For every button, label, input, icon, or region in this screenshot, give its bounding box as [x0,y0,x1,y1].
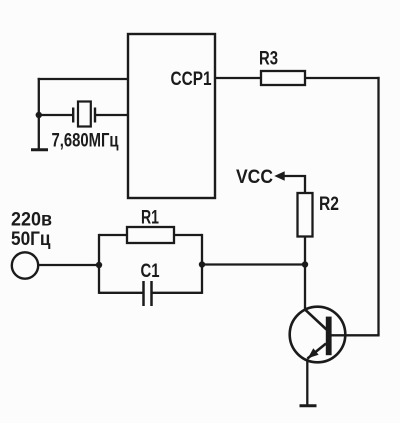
crystal ZQ1 7,680MHz [73,102,95,127]
svg-text:R2: R2 [319,194,339,215]
svg-text:C1: C1 [141,261,160,282]
svg-text:R1: R1 [141,208,159,229]
svg-text:220в: 220в [11,210,52,231]
resistor R1 [127,227,174,243]
wire: junction to crystal left plate [39,114,72,116]
ground (crystal net) [31,148,48,151]
wire: C1 right plate to right branch vertical [153,292,203,294]
wire: left vertical from top loop down to ground [38,78,40,149]
wire: bottom branch to C1 left plate [99,292,143,294]
wire: right branch vertical [201,234,203,294]
node: right RC junction [199,261,205,267]
wire: crystal right plate to IC [96,114,128,116]
capacitor C1 [144,281,152,306]
wire: R2 bottom to collector junction [304,237,306,265]
wire: VCC to R2 top [284,176,306,193]
wire: R3 to right vertical [305,77,380,79]
wire: collector junction down to transistor [304,265,306,311]
wire: IC CCP1 pin to R3 [215,77,261,79]
svg-text:50Гц: 50Гц [11,229,51,250]
transistor VT1 [290,307,346,363]
wire: R1 right to right branch vertical [174,234,202,236]
svg-text:CCP1: CCP1 [171,69,212,90]
wire: left branch vertical [98,234,100,294]
wire: source to RC junction [38,264,99,266]
svg-text:R3: R3 [259,49,278,70]
node: left RC junction [96,262,102,268]
IC U1 [128,34,215,198]
wire: RC network to collector junction [202,263,305,265]
node: crystal-left junction [36,112,42,118]
svg-text:VCC: VCC [236,167,273,188]
wire: to R1 left [99,234,127,236]
resistor R3 [261,71,305,85]
wire: right vertical down to transistor base [377,77,379,335]
arrow: VCC pointer [274,171,284,180]
source G1 220V 50Hz terminal [12,252,38,278]
resistor R2 [298,193,313,237]
wire: emitter down to ground [306,359,308,406]
wire: top loop from crystal net to IC left edge [38,78,128,80]
wire: base lead from bar to right vertical [332,334,380,336]
node: collector junction [302,261,308,267]
svg-text:7,680МГц: 7,680МГц [52,131,119,152]
ground (emitter) [300,404,317,407]
